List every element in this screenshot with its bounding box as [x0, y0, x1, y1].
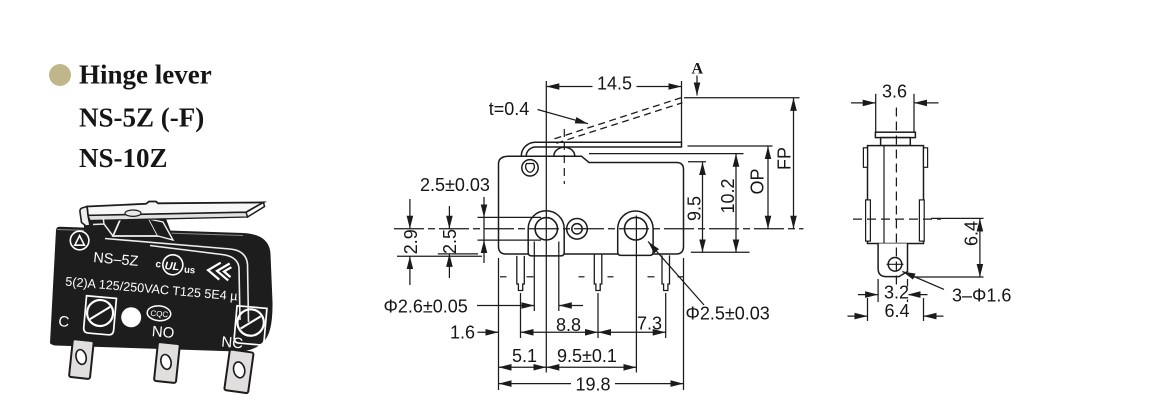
svg-text:us: us — [184, 265, 196, 277]
hole 2 (right, 2.5) — [625, 217, 648, 240]
dim 6.4 right side — [931, 217, 984, 219]
terminal 1 — [517, 256, 525, 291]
lower tab right — [919, 200, 924, 241]
photo: nested corner highlights top-right — [105, 239, 249, 323]
photo: lever pad on button — [125, 210, 141, 216]
photo: lever blade — [87, 202, 265, 221]
svg-text:6.4: 6.4 — [885, 301, 910, 321]
dimension texts of front view — [384, 61, 795, 395]
dim 2.5+-0.03 vertical line with hole tangents — [478, 216, 542, 218]
dim 3.6 arrows — [851, 102, 876, 104]
upper ear left — [863, 148, 867, 168]
svg-text:C: C — [58, 313, 70, 331]
upper ear right — [924, 148, 928, 168]
plunger neck — [881, 138, 911, 146]
svg-text:3–Φ1.6: 3–Φ1.6 — [952, 285, 1011, 305]
dim 8.8 — [521, 331, 599, 333]
leader phi2.5 — [648, 242, 704, 306]
lever (solid, rest position) — [536, 142, 682, 147]
dim 14.5 — [546, 86, 681, 88]
dim 7.3 — [598, 331, 666, 333]
centerline horizontal — [394, 228, 804, 230]
svg-text:3.6: 3.6 — [882, 81, 907, 101]
dim 3.2 — [877, 279, 879, 302]
photo: terminal NC — [224, 349, 253, 393]
text 3.2 — [882, 283, 910, 303]
svg-text:Hinge lever: Hinge lever — [79, 59, 212, 89]
photo: CQC oval logo — [147, 305, 172, 322]
dim 2.5 arrows — [448, 206, 450, 229]
plunger centerline (dashed vertical) — [563, 129, 565, 184]
middle small circle — [567, 219, 588, 240]
leader 3-phi1.6 — [902, 272, 944, 290]
terminal level dashed line — [500, 276, 684, 278]
terminal 2 — [594, 254, 602, 291]
bottom terminal tab with hole — [878, 244, 907, 277]
photo: hinge slot bracket — [93, 217, 113, 237]
svg-text:10.2: 10.2 — [718, 178, 738, 213]
svg-text:FP: FP — [775, 147, 795, 170]
terminal hole center tick — [887, 263, 904, 265]
extension: stem sides up — [875, 94, 877, 132]
lower tab left — [866, 200, 871, 241]
svg-text:OP: OP — [748, 168, 768, 194]
dim 2.9 arrows — [409, 199, 411, 229]
extension: boss bottom to left — [397, 255, 482, 257]
svg-text:1.6: 1.6 — [450, 322, 475, 342]
svg-text:A: A — [692, 61, 704, 78]
photo: top face dark area under lever — [84, 208, 174, 240]
plunger flange — [875, 132, 915, 137]
dim 5.1 — [499, 366, 547, 368]
lever raised position (dashed) — [555, 98, 683, 144]
svg-text:NS-10Z: NS-10Z — [79, 143, 168, 173]
photo: terminal NO — [154, 342, 180, 383]
photo: top face separation highlight — [57, 230, 243, 236]
photo: EK chevron logo — [207, 262, 231, 281]
photo: hinge block on top — [113, 213, 158, 237]
dim 9.5+-0.1 — [546, 366, 636, 368]
side body — [868, 146, 924, 244]
label A arrow — [696, 76, 698, 96]
svg-text:9.5±0.1: 9.5±0.1 — [557, 346, 617, 366]
svg-text:UL: UL — [164, 260, 180, 273]
photo: right screw — [234, 306, 267, 345]
text 19.8 — [571, 375, 615, 395]
svg-text:CQC: CQC — [150, 309, 169, 320]
extension: hole edges for 2.6 — [533, 242, 535, 312]
svg-text:Φ2.6±0.05: Φ2.6±0.05 — [384, 297, 468, 317]
svg-text:NO: NO — [151, 323, 175, 342]
extension: body left edge down — [498, 258, 500, 390]
text 6.4 bottom — [882, 301, 910, 321]
photo: cULus logo — [155, 253, 197, 276]
horizontal centerline dashed — [853, 218, 941, 220]
svg-text:t=0.4: t=0.4 — [489, 99, 530, 119]
svg-text:3.2: 3.2 — [884, 283, 909, 303]
screw hole top-left — [522, 160, 538, 176]
svg-text:6.4: 6.4 — [962, 221, 982, 246]
dimensions of front view — [394, 76, 804, 391]
body outline — [499, 156, 684, 254]
svg-text:14.5: 14.5 — [597, 74, 632, 94]
photo: circled triangle logo — [70, 231, 89, 250]
plunger bump — [554, 147, 575, 156]
terminal 3 — [662, 255, 670, 290]
text 14.5 — [593, 74, 637, 94]
dim OP — [767, 146, 769, 229]
extension: terminal centers — [520, 293, 522, 338]
extension: hole1 vertical centerline (long) — [545, 81, 547, 373]
extension: hole2 center down — [635, 216, 637, 373]
extension lines right side — [684, 97, 800, 99]
svg-text:Φ2.5±0.03: Φ2.5±0.03 — [686, 304, 770, 324]
photo: lever left hook — [80, 207, 90, 227]
dim 1.6 leader — [478, 331, 499, 333]
leader t=0.4 — [538, 110, 589, 124]
right mounting boss — [618, 211, 653, 255]
svg-text:2.5: 2.5 — [440, 229, 460, 254]
terminal hole — [888, 258, 902, 272]
dim FP — [793, 98, 795, 229]
extension: body bottom to left — [438, 253, 478, 255]
photo: white hole — [121, 307, 141, 327]
dim 19.8 — [499, 383, 684, 385]
photo: terminal C — [69, 339, 94, 379]
left mounting boss — [528, 211, 564, 256]
svg-text:2.5±0.03: 2.5±0.03 — [420, 175, 490, 195]
svg-text:9.5: 9.5 — [685, 196, 705, 221]
dim 9.5 — [702, 162, 704, 252]
internal vertical line — [883, 146, 885, 244]
svg-text:19.8: 19.8 — [576, 375, 611, 395]
lever left hook — [521, 142, 536, 156]
dim 6.4 bottom — [867, 298, 869, 321]
svg-text:NS-5Z (-F): NS-5Z (-F) — [79, 102, 204, 132]
svg-text:5.1: 5.1 — [512, 346, 537, 366]
dim 10.2 — [735, 154, 737, 253]
svg-text:7.3: 7.3 — [637, 314, 662, 334]
extension: body right edge down — [683, 258, 685, 390]
dim phi2.6 leader arrows — [477, 305, 534, 307]
photo: left screw — [83, 296, 116, 335]
vertical centerline dashed — [895, 108, 897, 293]
svg-text:2.9: 2.9 — [401, 229, 421, 254]
hole 1 (left, 2.5) — [535, 218, 557, 240]
title bullet — [49, 64, 71, 86]
photo: switch body silhouette — [50, 227, 273, 352]
extension: lever tip vertical — [681, 81, 683, 142]
svg-text:8.8: 8.8 — [556, 315, 581, 335]
